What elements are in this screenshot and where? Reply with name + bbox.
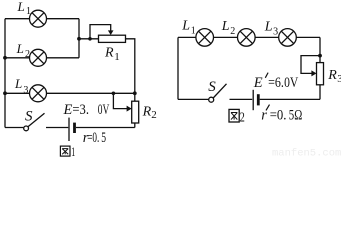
svg-text:3: 3 [337, 73, 341, 85]
svg-text:2: 2 [25, 49, 30, 60]
svg-text:E: E [253, 75, 263, 91]
svg-text:L: L [264, 19, 273, 34]
svg-text:0V: 0V [284, 75, 299, 91]
svg-text:3: 3 [23, 85, 28, 96]
svg-text:L: L [221, 19, 230, 34]
svg-text:2: 2 [151, 109, 157, 121]
svg-text:S: S [208, 79, 216, 95]
svg-text:R: R [327, 68, 337, 83]
svg-text:1: 1 [26, 6, 31, 17]
svg-text:L: L [16, 41, 24, 56]
svg-text:R: R [142, 105, 152, 120]
svg-text:=0.: =0. [87, 130, 99, 146]
svg-text:=0.: =0. [270, 107, 287, 123]
svg-text:r: r [261, 107, 267, 123]
svg-text:1: 1 [114, 51, 120, 63]
svg-text:2: 2 [240, 111, 245, 126]
svg-text:1: 1 [191, 26, 196, 37]
svg-text:manfen5.com: manfen5.com [272, 148, 341, 158]
svg-text:S: S [25, 108, 33, 124]
svg-text:E: E [63, 102, 73, 118]
svg-text:5: 5 [101, 130, 106, 146]
svg-text:3: 3 [273, 26, 278, 37]
svg-text:L: L [14, 76, 22, 91]
svg-text:2: 2 [230, 26, 235, 37]
svg-text:1: 1 [71, 145, 75, 157]
svg-text:5Ω: 5Ω [289, 107, 303, 123]
svg-text:=3.: =3. [72, 102, 89, 118]
svg-text:=6.: =6. [268, 75, 284, 91]
svg-text:0V: 0V [98, 102, 110, 118]
svg-text:L: L [17, 0, 25, 14]
svg-text:R: R [104, 46, 114, 61]
svg-text:L: L [181, 19, 190, 34]
